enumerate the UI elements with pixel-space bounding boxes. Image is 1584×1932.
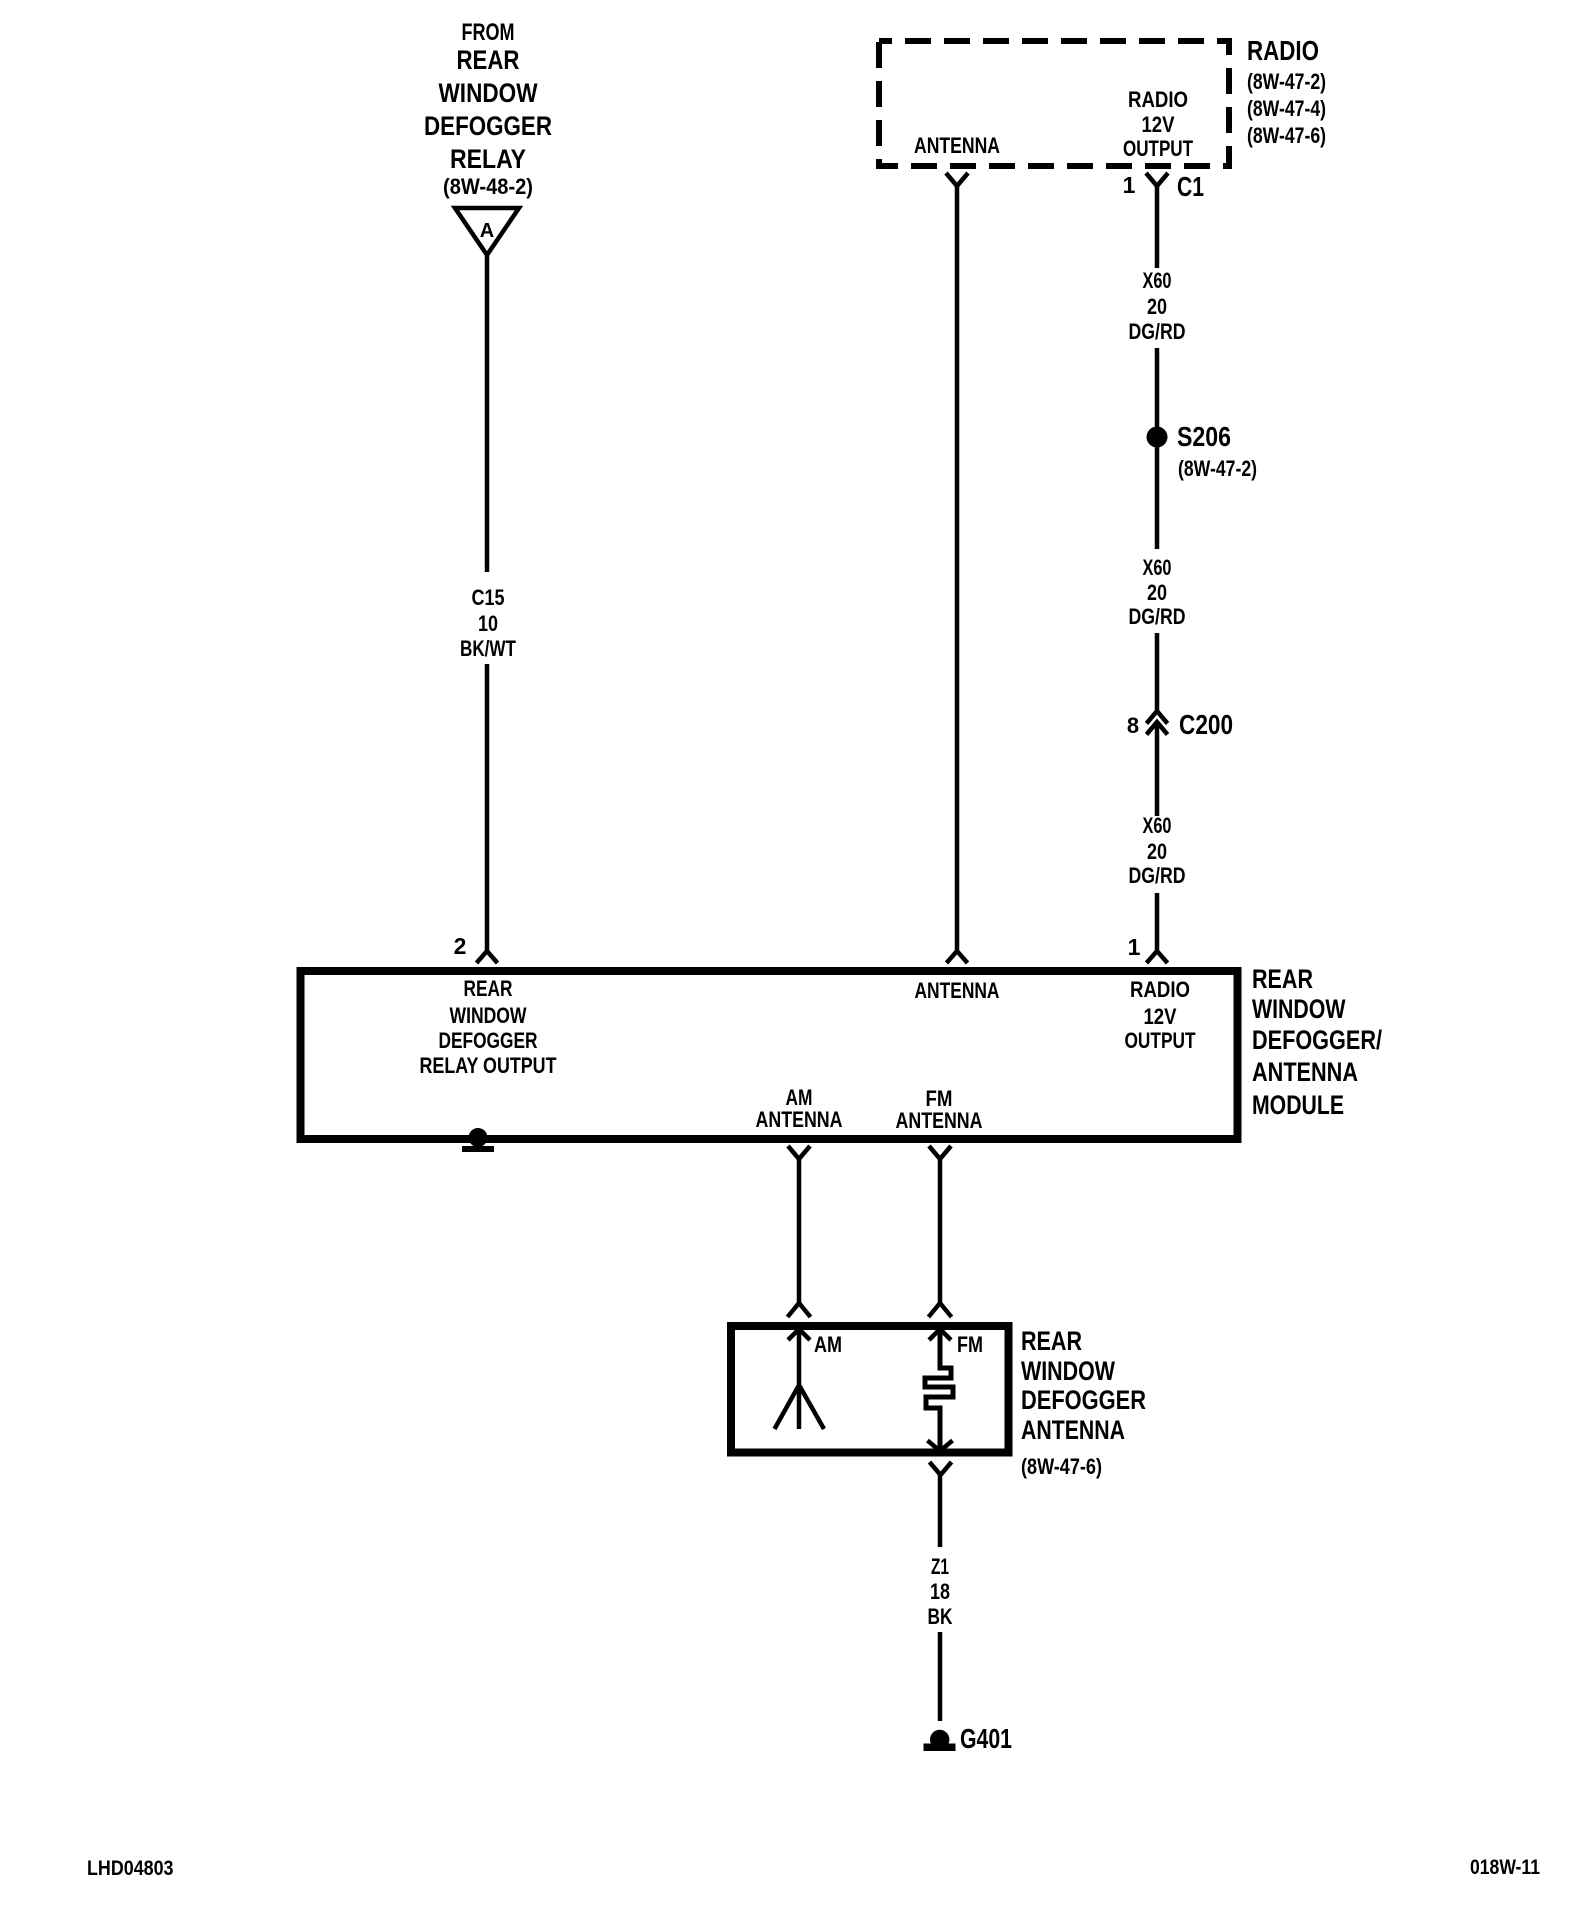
rear window defogger antenna module box	[301, 971, 1238, 1139]
label FM ANTENNA at module	[896, 1086, 983, 1133]
svg-text:2: 2	[454, 933, 467, 959]
label REAR WINDOW DEFOGGER RELAY OUTPUT	[420, 976, 557, 1078]
svg-text:OUTPUT: OUTPUT	[1123, 136, 1193, 161]
connector terminal antenna below radio	[946, 173, 968, 186]
svg-text:FROM: FROM	[462, 19, 515, 46]
wire antenna	[955, 186, 960, 951]
wire label Z1 18 BK	[928, 1554, 953, 1629]
svg-text:OUTPUT: OUTPUT	[1125, 1028, 1196, 1053]
svg-text:WINDOW: WINDOW	[450, 1003, 527, 1028]
svg-text:8: 8	[1127, 713, 1139, 738]
FM defogger grid element symbol	[925, 1329, 953, 1451]
connector terminal AM below module	[788, 1146, 810, 1159]
label FROM REAR WINDOW DEFOGGER RELAY (8W-48-2)	[424, 19, 552, 199]
wire X60 segment 6	[1155, 893, 1160, 951]
svg-text:10: 10	[478, 611, 498, 636]
ground G401 symbol	[924, 1730, 956, 1751]
AM antenna element symbol	[775, 1329, 825, 1429]
svg-text:20: 20	[1147, 839, 1167, 864]
connector terminal FM below module	[929, 1146, 951, 1159]
wire X60 segment 3	[1155, 447, 1160, 549]
wire label X60 20 DG/RD third	[1129, 813, 1186, 888]
wire X60 segment 4	[1155, 633, 1160, 711]
svg-text:ANTENNA: ANTENNA	[896, 1108, 983, 1133]
svg-text:RADIO: RADIO	[1247, 35, 1319, 66]
svg-text:X60: X60	[1143, 555, 1172, 580]
arrow AM inside antenna box	[788, 1329, 810, 1340]
label RADIO 12V OUTPUT at module	[1125, 977, 1196, 1053]
label S206 (8W-47-2)	[1177, 421, 1257, 481]
svg-text:REAR: REAR	[464, 976, 513, 1001]
wire X60 segment 2	[1155, 348, 1160, 427]
arrow FM inside antenna box	[929, 1329, 951, 1340]
svg-text:(8W-47-6): (8W-47-6)	[1247, 123, 1326, 148]
svg-text:DEFOGGER: DEFOGGER	[1021, 1385, 1146, 1415]
svg-text:C200: C200	[1179, 709, 1233, 740]
svg-text:WINDOW: WINDOW	[1252, 994, 1346, 1024]
svg-text:A: A	[480, 220, 494, 242]
svg-text:(8W-47-4): (8W-47-4)	[1247, 96, 1326, 121]
svg-text:ANTENNA: ANTENNA	[756, 1107, 843, 1132]
off-page connector A from rear window defogger relay	[455, 208, 519, 255]
svg-text:ANTENNA: ANTENNA	[1021, 1415, 1125, 1445]
connector terminal pin 1 at module	[1147, 951, 1168, 963]
svg-text:RADIO: RADIO	[1128, 87, 1188, 112]
svg-text:12V: 12V	[1142, 112, 1175, 137]
svg-text:ANTENNA: ANTENNA	[1252, 1057, 1358, 1087]
svg-text:12V: 12V	[1144, 1004, 1177, 1029]
svg-text:G401: G401	[960, 1723, 1012, 1754]
svg-text:BK: BK	[928, 1604, 953, 1629]
connector terminal pin 2 at module	[477, 951, 498, 963]
svg-text:ANTENNA: ANTENNA	[915, 978, 1000, 1003]
svg-text:REAR: REAR	[457, 45, 520, 75]
svg-text:(8W-47-6): (8W-47-6)	[1021, 1454, 1102, 1479]
svg-text:DEFOGGER/: DEFOGGER/	[1252, 1025, 1382, 1055]
wire label X60 20 DG/RD first	[1129, 268, 1186, 344]
svg-text:WINDOW: WINDOW	[439, 78, 538, 108]
svg-text:C1: C1	[1177, 171, 1204, 202]
svg-text:(8W-47-2): (8W-47-2)	[1247, 69, 1326, 94]
wire label X60 20 DG/RD second	[1129, 555, 1186, 629]
label REAR WINDOW DEFOGGER ANTENNA (8W-47-6)	[1021, 1326, 1146, 1479]
label RADIO (8W-47-2) (8W-47-4) (8W-47-6)	[1247, 35, 1326, 148]
svg-text:(8W-47-2): (8W-47-2)	[1178, 456, 1257, 481]
svg-text:REAR: REAR	[1252, 964, 1313, 994]
svg-text:C15: C15	[472, 585, 505, 610]
wire FM antenna	[938, 1159, 943, 1304]
svg-text:RELAY OUTPUT: RELAY OUTPUT	[420, 1053, 557, 1078]
svg-text:018W-11: 018W-11	[1470, 1856, 1540, 1879]
svg-text:DEFOGGER: DEFOGGER	[439, 1028, 538, 1053]
svg-text:AM: AM	[814, 1332, 842, 1357]
svg-text:DG/RD: DG/RD	[1129, 319, 1186, 344]
svg-text:LHD04803: LHD04803	[87, 1857, 174, 1880]
case ground at module	[462, 1128, 494, 1152]
svg-text:1: 1	[1128, 934, 1141, 960]
wire C15 upper segment	[485, 255, 490, 572]
label AM ANTENNA at module	[756, 1085, 843, 1132]
splice S206	[1147, 427, 1168, 448]
svg-text:X60: X60	[1143, 268, 1172, 293]
svg-text:REAR: REAR	[1021, 1326, 1082, 1356]
wire AM antenna	[797, 1159, 802, 1304]
svg-text:WINDOW: WINDOW	[1021, 1356, 1115, 1386]
label RADIO 12V OUTPUT radio pin	[1123, 87, 1193, 161]
radio dashed box	[879, 41, 1229, 166]
svg-text:DEFOGGER: DEFOGGER	[424, 111, 552, 141]
connector C1 terminal	[1146, 173, 1168, 186]
wire Z1 upper segment	[938, 1475, 943, 1547]
svg-text:1: 1	[1123, 172, 1136, 198]
wire X60 segment 5	[1155, 722, 1160, 816]
svg-text:20: 20	[1147, 294, 1167, 319]
svg-text:18: 18	[930, 1579, 950, 1604]
rear window defogger antenna box	[731, 1326, 1009, 1453]
svg-text:RADIO: RADIO	[1130, 977, 1190, 1002]
svg-text:FM: FM	[957, 1332, 983, 1357]
connector terminal antenna at module	[947, 951, 968, 963]
svg-text:RELAY: RELAY	[450, 144, 526, 174]
wire label C15 10 BK/WT	[460, 585, 516, 661]
in-line connector C200	[1147, 711, 1168, 735]
svg-text:X60: X60	[1143, 813, 1172, 838]
wire X60 segment 1	[1155, 186, 1160, 268]
arrow FM out of antenna box	[928, 1441, 953, 1452]
arrow AM into antenna box	[788, 1303, 811, 1317]
svg-text:DG/RD: DG/RD	[1129, 604, 1186, 629]
connector terminal below antenna box	[930, 1462, 952, 1475]
svg-text:20: 20	[1147, 580, 1167, 605]
wire Z1 lower segment	[938, 1632, 943, 1721]
wire C15 lower segment	[485, 664, 490, 951]
svg-text:MODULE: MODULE	[1252, 1090, 1344, 1120]
svg-text:Z1: Z1	[931, 1554, 949, 1579]
svg-text:BK/WT: BK/WT	[460, 636, 516, 661]
svg-text:DG/RD: DG/RD	[1129, 863, 1186, 888]
svg-text:(8W-48-2): (8W-48-2)	[443, 174, 533, 199]
arrow FM into antenna box	[929, 1303, 952, 1317]
svg-text:S206: S206	[1177, 421, 1231, 452]
label REAR WINDOW DEFOGGER/ ANTENNA MODULE	[1252, 964, 1382, 1120]
svg-text:ANTENNA: ANTENNA	[914, 133, 1000, 158]
